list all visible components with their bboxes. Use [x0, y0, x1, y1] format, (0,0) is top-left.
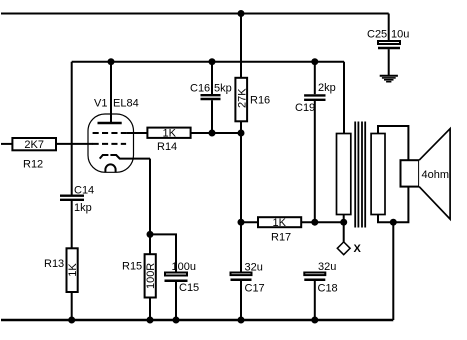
wire: primary bottom lead down to node X: [343, 215, 345, 242]
wire: R14 to C16/R16 node: [191, 132, 241, 134]
junction: ground rail / C17: [238, 317, 245, 324]
svg-text:100u: 100u: [172, 261, 196, 273]
junction: anode rail / C16: [209, 58, 216, 65]
svg-text:C19: C19: [295, 102, 315, 114]
tube V1 EL84 envelope: [88, 114, 134, 172]
junction: R17 wire / primary bottom: [340, 219, 347, 226]
wire: R17 right lead to transformer: [301, 221, 344, 223]
wire: cathode drop to R15: [149, 159, 151, 255]
resistor R14 (1K): [147, 128, 190, 140]
svg-text:1K: 1K: [162, 128, 176, 140]
svg-text:1K: 1K: [272, 217, 286, 229]
capacitor C18 (32u, polarized): [304, 273, 325, 321]
svg-text:X: X: [354, 243, 362, 255]
resistor R13 (1K): [67, 248, 80, 292]
wire: jog from cathode node to C15: [150, 234, 176, 271]
wire: R16 node down to R17 node: [240, 133, 242, 272]
capacitor C17 (32u, polarized): [231, 273, 252, 321]
svg-text:C16: C16: [190, 82, 210, 94]
speaker LS1: [401, 129, 451, 219]
junction: ground rail / R15: [147, 317, 154, 324]
junction: cathode / C15 jog: [147, 231, 154, 238]
wire: R15 to ground rail: [149, 298, 151, 321]
resistor R17 (1K): [258, 217, 301, 229]
tube V1 cathode: [100, 155, 150, 159]
ground symbol (below C25): [380, 76, 398, 82]
junction: anode rail / C19: [311, 58, 318, 65]
junction: R14 wire / R16: [238, 130, 245, 137]
capacitor C25 (polarized, 10u): [378, 41, 400, 76]
wire: anode rail (y=62): [72, 61, 344, 63]
svg-text:1K: 1K: [67, 263, 79, 277]
svg-text:10u: 10u: [391, 29, 409, 41]
capacitor C19 (2kp): [304, 62, 325, 223]
svg-text:R15: R15: [122, 261, 142, 273]
junction: ground rail / R13: [68, 317, 75, 324]
transformer T1 core: [355, 122, 365, 228]
svg-text:C14: C14: [74, 185, 94, 197]
wire: R17 left lead: [241, 221, 258, 223]
wire: R13 to ground rail: [71, 292, 73, 320]
capacitor C14 (1kp): [60, 196, 84, 200]
junction: speaker bottom wire / ground drop: [390, 219, 397, 226]
svg-text:4ohm: 4ohm: [422, 169, 450, 181]
svg-text:R13: R13: [44, 258, 64, 270]
wire: secondary top to speaker: [378, 126, 408, 160]
svg-text:1kp: 1kp: [74, 202, 92, 214]
svg-text:32u: 32u: [245, 261, 263, 273]
tube V1 control grid g1 (dashed): [93, 143, 127, 145]
tube V1 screen grid g2 (dashed): [93, 132, 127, 134]
transformer T1 secondary winding: [371, 134, 385, 215]
junction: ground rail / C18: [311, 317, 318, 324]
resistor R15 (100R): [145, 254, 158, 297]
wire: top rail corner down to C25: [388, 14, 390, 41]
wire: bottom ground rail: [1, 319, 393, 321]
svg-text:R17: R17: [271, 232, 291, 244]
tube V1 heater: [105, 164, 115, 172]
capacitor C15 (100u, polarized): [165, 273, 188, 321]
resistor R16 (27K) with leads: [235, 14, 248, 134]
svg-text:5kp: 5kp: [214, 82, 232, 94]
svg-text:R14: R14: [157, 141, 177, 153]
tube V1 anode lead: [110, 62, 112, 123]
wire: drop to ground rail: [392, 222, 394, 320]
svg-text:C17: C17: [245, 282, 265, 294]
tube V1 anode plate bar: [98, 122, 122, 124]
svg-text:27K: 27K: [236, 88, 248, 108]
wire: secondary bottom to speaker: [378, 187, 408, 223]
svg-text:C25: C25: [367, 29, 387, 41]
wire: R12 to tube grid g1: [56, 143, 93, 145]
svg-text:V1: V1: [94, 97, 107, 109]
wire: g2 to R14: [126, 132, 147, 134]
svg-text:R12: R12: [23, 159, 43, 171]
svg-text:2kp: 2kp: [318, 82, 336, 94]
wire: anode rail corner down to primary top: [343, 62, 345, 134]
wire: left drop from anode rail to C14: [71, 62, 73, 195]
transformer T1 primary winding: [337, 134, 351, 215]
svg-text:C15: C15: [179, 282, 199, 294]
junction: top rail / R16 lead: [238, 10, 245, 17]
junction: R17 wire / C18: [311, 219, 318, 226]
svg-text:32u: 32u: [318, 261, 336, 273]
wire: top V+ rail: [1, 13, 389, 15]
wire: C14 to R13: [71, 201, 73, 249]
svg-text:EL84: EL84: [113, 97, 139, 109]
svg-text:R16: R16: [250, 95, 270, 107]
node X diamond: [337, 242, 350, 255]
svg-text:100R: 100R: [145, 263, 157, 289]
wire: input to R12: [1, 143, 12, 145]
svg-text:C18: C18: [318, 283, 338, 295]
capacitor C16 (5kp): [201, 62, 221, 133]
junction: ground rail / C15: [173, 317, 180, 324]
resistor R12 (2K7): [12, 138, 56, 151]
junction: anode rail / tube anode: [108, 58, 115, 65]
svg-text:2K7: 2K7: [24, 139, 44, 151]
junction: R17 left node: [238, 219, 245, 226]
junction: R14 wire / C16: [209, 130, 216, 137]
